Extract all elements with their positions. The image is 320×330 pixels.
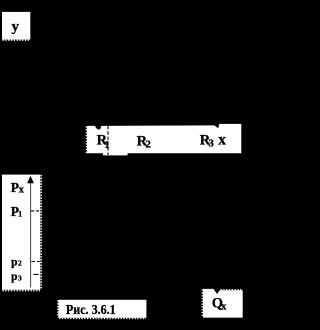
svg-text:1: 1 — [104, 139, 110, 151]
caption box torn bottom edge — [59, 317, 146, 319]
svg-text:3: 3 — [18, 273, 22, 282]
figure caption box — [59, 300, 147, 318]
svg-text:y: y — [12, 19, 20, 35]
svg-text:x: x — [218, 131, 226, 148]
svg-text:2: 2 — [145, 139, 151, 151]
y axis label box — [2, 12, 30, 40]
svg-text:p: p — [11, 271, 17, 283]
R box torn left edge — [85, 127, 87, 154]
y box torn bottom edge — [3, 39, 31, 41]
svg-text:x: x — [19, 184, 25, 195]
P box torn bottom edge — [3, 290, 41, 292]
tick dash at P1 level — [31, 210, 40, 212]
svg-text:3: 3 — [208, 137, 214, 149]
Qx quantity label box — [203, 289, 243, 318]
dashed region divider line — [107, 126, 109, 155]
x axis regions box (R1 R2 R3 x) — [87, 124, 241, 155]
svg-text:x: x — [221, 300, 227, 312]
price axis box — [2, 175, 40, 290]
svg-text:1: 1 — [18, 209, 22, 219]
tick dash at p3 level — [33, 273, 38, 275]
Q box torn left edge — [201, 290, 203, 318]
price axis arrowhead — [27, 176, 34, 184]
tick dash at p2 level — [32, 261, 40, 263]
caption box torn left edge — [57, 300, 59, 317]
svg-text:p: p — [11, 256, 17, 268]
svg-text:2: 2 — [18, 258, 22, 267]
price axis vertical line — [30, 181, 32, 287]
svg-text:Рис. 3.6.1: Рис. 3.6.1 — [66, 302, 116, 317]
P box torn right edge — [40, 175, 42, 290]
Q box torn top edge — [221, 289, 243, 291]
